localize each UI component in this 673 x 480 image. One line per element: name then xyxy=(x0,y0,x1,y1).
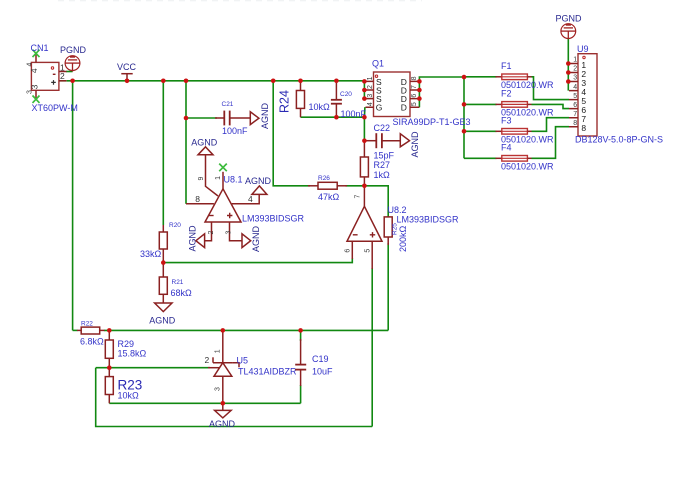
svg-text:47kΩ: 47kΩ xyxy=(318,192,340,202)
svg-text:6: 6 xyxy=(573,102,577,109)
R26 right lead xyxy=(337,185,347,187)
F1 right lead xyxy=(527,76,531,78)
F1 body xyxy=(502,74,528,80)
C19 bottom lead xyxy=(300,370,302,386)
FUSE F4 xyxy=(496,142,555,171)
ground AGND right of C22 xyxy=(400,131,420,158)
wire C21 branch xyxy=(186,117,217,119)
svg-text:2: 2 xyxy=(60,71,65,81)
svg-text:R20: R20 xyxy=(169,222,181,229)
RESISTOR R26 xyxy=(308,175,347,202)
junction U9 pin2 xyxy=(566,70,571,75)
U5 ref tick left xyxy=(212,357,214,362)
U5 pin2 lead xyxy=(208,367,220,369)
wire Q1 G down xyxy=(363,107,366,141)
C22 right lead xyxy=(382,140,400,142)
R29 bottom lead xyxy=(108,358,110,367)
svg-text:6: 6 xyxy=(411,94,418,98)
U8.1 pin8 lead xyxy=(186,203,214,205)
VCC flag xyxy=(117,62,137,81)
wire F4 left xyxy=(464,157,497,159)
svg-text:U8.2: U8.2 xyxy=(388,205,407,215)
svg-text:6: 6 xyxy=(345,249,352,253)
PGND mid bar xyxy=(68,59,77,61)
svg-text:15pF: 15pF xyxy=(374,151,395,161)
junction U5 pin3 xyxy=(221,401,226,406)
svg-text:3: 3 xyxy=(214,387,221,391)
R22 left lead xyxy=(77,329,81,331)
CAPACITOR C22 xyxy=(364,123,400,161)
U8.2 pin5 stub xyxy=(371,241,373,269)
svg-text:4: 4 xyxy=(27,62,34,66)
F1 left lead xyxy=(496,76,502,78)
svg-text:8: 8 xyxy=(411,76,418,80)
junction C22 node xyxy=(362,138,367,143)
svg-text:2: 2 xyxy=(208,230,215,234)
wire F1 left xyxy=(464,76,497,78)
wire F3 to U9 pin7 xyxy=(532,118,570,132)
ground AGND below R21 xyxy=(149,303,176,326)
svg-text:CN1: CN1 xyxy=(31,43,49,53)
svg-text:AGND: AGND xyxy=(149,316,176,326)
svg-text:TL431AIDBZR: TL431AIDBZR xyxy=(238,367,297,377)
U9 pin1 indicator ring xyxy=(583,56,585,58)
OP-AMP U8.2 xyxy=(345,186,459,269)
svg-text:U5: U5 xyxy=(237,356,249,366)
wire R26 branch vertical xyxy=(273,81,310,186)
SHUNT REGULATOR U5 xyxy=(205,330,298,403)
U8.1 no-connect X pin1 xyxy=(219,164,227,172)
Q1 pin1 indicator ring xyxy=(375,75,377,77)
R20 body xyxy=(159,232,167,249)
wire U8.2 pin6 row to R20/R21 node xyxy=(163,258,352,263)
svg-text:AGND: AGND xyxy=(191,138,218,148)
ground AGND at U8.1 pin3 xyxy=(242,225,261,252)
wire R24/C20 bottom row xyxy=(301,116,365,118)
C19 plates xyxy=(295,364,306,366)
svg-text:DB128V-5.0-8P-GN-S: DB128V-5.0-8P-GN-S xyxy=(575,135,663,145)
FUSE F3 xyxy=(496,115,555,144)
svg-text:AGND: AGND xyxy=(188,225,198,252)
svg-text:3: 3 xyxy=(27,90,34,94)
RESISTOR R21 xyxy=(159,263,192,303)
PGND chord xyxy=(65,62,80,64)
wire U8.2 pin5 down xyxy=(371,268,373,427)
svg-text:33kΩ: 33kΩ xyxy=(140,249,162,259)
wire F4 to U9 pin8 xyxy=(532,127,570,159)
svg-text:2: 2 xyxy=(205,355,210,365)
U8.1 pin9 lead xyxy=(206,155,219,196)
U8.2 pin7 stub xyxy=(363,186,365,207)
ground AGND at U8.1 pin4 xyxy=(232,176,272,204)
junction Q1 pin6 xyxy=(417,96,422,101)
PGND stem xyxy=(72,63,74,71)
VCC stem xyxy=(126,74,128,81)
wire CN1 pin2 link xyxy=(60,80,67,82)
C19 top lead xyxy=(300,339,302,365)
svg-text:3: 3 xyxy=(573,75,577,82)
CAPACITOR C21 xyxy=(215,101,250,136)
svg-text:C21: C21 xyxy=(222,101,234,108)
R27 bottom lead xyxy=(363,177,365,186)
junction VCC flag xyxy=(125,79,130,84)
svg-text:VCC: VCC xyxy=(117,62,137,72)
junction R24 top xyxy=(298,79,303,84)
R25 body xyxy=(384,217,392,237)
wire CN1 pin1 link xyxy=(66,71,73,73)
svg-text:4: 4 xyxy=(367,102,374,106)
wire node R27 bottom to R25 xyxy=(364,186,388,217)
ground AGND below U5 xyxy=(209,403,236,429)
junction R22/R29 node xyxy=(107,328,112,333)
U9 pin stubs xyxy=(569,64,578,127)
svg-text:68kΩ: 68kΩ xyxy=(171,288,193,298)
R21 bottom lead xyxy=(162,294,164,303)
svg-text:Q1: Q1 xyxy=(372,59,384,69)
wire top bus xyxy=(67,80,365,82)
junction Q1 pin1 xyxy=(362,79,367,84)
PGND flag near CN1 xyxy=(60,45,87,72)
wire F2 to U9 pin6 xyxy=(532,104,570,108)
svg-text:0501020.WR: 0501020.WR xyxy=(501,161,554,171)
CN1 pin 3 stub xyxy=(35,90,37,99)
svg-text:AGND: AGND xyxy=(251,225,261,252)
U5 cathode bar xyxy=(213,362,233,364)
svg-text:3: 3 xyxy=(226,230,233,234)
junction R29/R23/U5 ref xyxy=(107,365,112,370)
svg-text:F4: F4 xyxy=(501,142,512,152)
wire F2 left xyxy=(464,103,497,105)
U8.1 minus mark xyxy=(209,215,214,217)
U5 pin1 lead xyxy=(222,330,224,362)
svg-text:R22: R22 xyxy=(81,321,93,328)
junction R26 branch xyxy=(271,79,276,84)
svg-text:15.8kΩ: 15.8kΩ xyxy=(118,349,147,359)
svg-text:1: 1 xyxy=(573,57,577,64)
R23 bottom lead xyxy=(108,395,110,404)
CONNECTOR U9 xyxy=(569,44,663,145)
Q1 left stubs xyxy=(366,81,374,107)
C22 plates xyxy=(375,133,377,148)
wire R20 branch vertical xyxy=(162,81,164,225)
wire Q1 right pins bus xyxy=(419,77,464,107)
wire x186 branch vertical xyxy=(185,81,187,204)
CAPACITOR C19 xyxy=(295,339,333,386)
svg-text:2: 2 xyxy=(367,85,374,89)
svg-text:G: G xyxy=(376,103,383,113)
CAPACITOR C20 xyxy=(331,81,367,119)
RESISTOR R27 xyxy=(360,141,390,186)
junction C19 top bus xyxy=(298,328,303,333)
Q1 right stubs xyxy=(410,81,419,107)
svg-text:AGND: AGND xyxy=(260,102,270,129)
svg-text:5: 5 xyxy=(411,102,418,106)
junction CN1 pin2 / VCC bus xyxy=(70,79,75,84)
U8.1 output pin 1 stub xyxy=(222,172,224,189)
svg-text:10uF: 10uF xyxy=(312,367,333,377)
svg-text:LM393BIDSGR: LM393BIDSGR xyxy=(242,214,305,224)
svg-text:F3: F3 xyxy=(501,115,512,125)
svg-text:AGND: AGND xyxy=(410,131,420,158)
C21 left lead xyxy=(215,117,224,119)
wire F1 to U9 pin5 xyxy=(532,77,570,100)
junction U5 pin1 bus xyxy=(221,328,226,333)
ground AGND at U8.1 pin2 xyxy=(188,225,205,252)
junction Q1 pin7 xyxy=(417,88,422,93)
svg-text:8: 8 xyxy=(195,194,200,204)
svg-text:AGND: AGND xyxy=(209,419,236,429)
R22 body xyxy=(81,327,100,334)
svg-text:U9: U9 xyxy=(577,44,589,54)
Q1 box xyxy=(374,72,411,117)
junction U9 pin1 xyxy=(566,61,571,66)
svg-text:SIRA99DP-T1-GE3: SIRA99DP-T1-GE3 xyxy=(393,117,471,127)
MOSFET Q1 xyxy=(366,59,471,128)
U5 ref hook right xyxy=(233,363,239,368)
FUSE F2 xyxy=(496,88,555,117)
svg-text:U8.1: U8.1 xyxy=(224,175,243,185)
CN1 minus mark xyxy=(53,73,56,75)
wire fuse bus vertical xyxy=(463,77,465,158)
AGND stem xyxy=(222,403,224,410)
R26 body xyxy=(318,182,337,189)
C22 left lead xyxy=(364,140,376,142)
R24 body xyxy=(296,91,304,109)
U8.1 pin3 stub xyxy=(230,222,243,241)
svg-text:R21: R21 xyxy=(172,279,184,286)
svg-text:1kΩ: 1kΩ xyxy=(374,170,391,180)
junction C21 row xyxy=(184,116,189,121)
junction fuse bus / F1 xyxy=(462,75,467,80)
R23 top lead xyxy=(108,368,110,377)
junction Q1 pin3 xyxy=(362,96,367,101)
svg-text:C19: C19 xyxy=(312,354,329,364)
U9 box xyxy=(578,54,597,136)
svg-text:10kΩ: 10kΩ xyxy=(309,102,331,112)
U5 pin3 lead xyxy=(222,376,224,403)
svg-text:AGND: AGND xyxy=(245,176,272,186)
RESISTOR R29 xyxy=(105,330,146,367)
R20 bottom lead xyxy=(162,249,164,263)
R27 body xyxy=(360,157,368,177)
FUSE F1 xyxy=(496,61,555,90)
svg-text:R27: R27 xyxy=(374,160,391,170)
R24 top lead xyxy=(300,81,302,91)
CN1 pin 1 stub xyxy=(59,71,67,73)
svg-text:3: 3 xyxy=(29,84,39,89)
svg-text:C22: C22 xyxy=(374,123,391,133)
R25 bottom lead xyxy=(387,237,389,245)
junction Q1 gate node xyxy=(362,115,367,120)
CN1 plus mark xyxy=(51,80,56,85)
wire bottom loop xyxy=(96,368,373,427)
svg-text:200kΩ: 200kΩ xyxy=(398,225,408,252)
R27 top lead xyxy=(363,141,365,157)
junction C20 bottom xyxy=(334,115,339,120)
svg-text:C20: C20 xyxy=(340,91,352,98)
svg-text:LM393BIDSGR: LM393BIDSGR xyxy=(397,215,460,225)
junction Q1 pin2 xyxy=(362,88,367,93)
svg-text:4: 4 xyxy=(248,194,253,204)
svg-text:D: D xyxy=(401,103,407,113)
svg-text:F1: F1 xyxy=(501,61,512,71)
R29 body xyxy=(105,340,113,358)
OP-AMP U8.1 xyxy=(195,155,304,241)
svg-text:4: 4 xyxy=(573,84,577,91)
svg-text:8: 8 xyxy=(581,123,586,133)
junction C20 top xyxy=(334,79,339,84)
CN1 pin 2 stub xyxy=(59,80,67,82)
wire U9 pins1-4 bus from PGND xyxy=(567,39,569,91)
U8.2 minus mark xyxy=(353,234,358,236)
RESISTOR R25 xyxy=(384,217,408,252)
wire R23 bottom row xyxy=(109,402,300,404)
svg-text:R29: R29 xyxy=(118,339,135,349)
U5 triangle xyxy=(214,363,232,377)
svg-text:PGND: PGND xyxy=(60,45,87,55)
svg-text:100nF: 100nF xyxy=(222,126,248,136)
U8.1 plus mark xyxy=(227,213,232,218)
svg-text:7: 7 xyxy=(573,111,577,118)
svg-text:F2: F2 xyxy=(501,88,512,98)
CN1 no-connect X pin3 xyxy=(33,96,40,103)
R26 left lead xyxy=(308,185,318,187)
wire R25 bottom to lower bus xyxy=(387,243,389,330)
wire lower bus xyxy=(73,329,78,331)
svg-text:5: 5 xyxy=(364,249,371,253)
R21 top lead xyxy=(162,263,164,277)
wire C19 top lead green xyxy=(300,330,302,341)
svg-text:7: 7 xyxy=(355,194,362,198)
CN1 pin1 indicator ring xyxy=(51,67,53,69)
R24 bottom lead xyxy=(300,108,302,117)
svg-text:XT60PW-M: XT60PW-M xyxy=(32,103,78,113)
connector CN1 box xyxy=(31,62,59,90)
RESISTOR R23 xyxy=(105,368,142,404)
C20 bottom lead xyxy=(335,104,337,118)
svg-text:5: 5 xyxy=(573,93,577,100)
U8.2 plus mark xyxy=(370,232,375,237)
svg-text:2: 2 xyxy=(573,66,577,73)
svg-text:9: 9 xyxy=(198,176,205,180)
svg-text:PGND: PGND xyxy=(556,14,583,24)
sheet top edge artifact xyxy=(58,0,422,2)
C20 plates xyxy=(331,99,342,101)
svg-text:R26: R26 xyxy=(318,175,330,182)
VCC bar xyxy=(121,73,132,75)
RESISTOR R22 xyxy=(77,321,105,347)
U8.1 pin2 stub xyxy=(205,222,212,241)
wire F3 left xyxy=(464,130,497,132)
RESISTOR R24 xyxy=(278,81,330,117)
wire U5 ref row xyxy=(96,367,210,369)
svg-text:4: 4 xyxy=(29,68,39,73)
svg-text:3: 3 xyxy=(367,94,374,98)
junction R20/R21 node xyxy=(161,260,166,265)
U8.2 pin6 stub xyxy=(351,241,353,259)
R29 top lead xyxy=(108,330,110,340)
svg-text:7: 7 xyxy=(411,85,418,89)
CN1 no-connect X pin4 xyxy=(33,50,40,57)
junction F3 xyxy=(462,129,467,134)
junction Q1 pin8 xyxy=(417,79,422,84)
junction C21 branch xyxy=(184,79,189,84)
R20 top lead xyxy=(162,225,164,232)
junction R27/R26/U8.2 pin7 xyxy=(362,184,367,189)
svg-text:1: 1 xyxy=(367,76,374,80)
C21 plates xyxy=(223,111,225,126)
R21 body xyxy=(159,277,167,294)
svg-text:10kΩ: 10kΩ xyxy=(118,391,140,401)
PGND flag above U9 xyxy=(556,14,583,40)
C21 right lead xyxy=(230,117,251,119)
PGND top bar xyxy=(70,56,75,58)
R23 body xyxy=(105,377,113,395)
wire C19 bottom lead green xyxy=(300,385,302,403)
svg-text:R24: R24 xyxy=(278,90,292,113)
PGND symbol circle xyxy=(65,56,80,71)
U8.1 triangle xyxy=(205,189,241,222)
junction U9 pin3 xyxy=(566,79,571,84)
ground AGND right of C21 xyxy=(250,102,269,129)
CN1 pin 4 stub xyxy=(35,54,37,63)
svg-text:8: 8 xyxy=(573,120,577,127)
R22 right lead xyxy=(100,329,105,331)
ground AGND at U8.1 pin9 xyxy=(191,138,218,155)
U8.2 triangle xyxy=(347,206,382,241)
svg-text:6.8kΩ: 6.8kΩ xyxy=(80,337,104,347)
wire left tall vertical xyxy=(72,81,74,331)
svg-text:1: 1 xyxy=(215,176,222,180)
wire R26 to node xyxy=(346,185,365,187)
RESISTOR R20 xyxy=(140,222,181,263)
junction R20 branch xyxy=(161,79,166,84)
wire Q1 left pins bus xyxy=(363,81,365,99)
svg-text:1: 1 xyxy=(214,349,221,353)
C20 top lead xyxy=(335,81,337,100)
junction F2 xyxy=(462,102,467,107)
